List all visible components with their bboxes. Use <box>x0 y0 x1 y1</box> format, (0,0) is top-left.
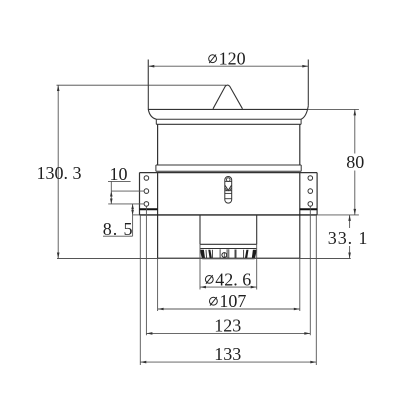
lower bead ring top line <box>156 164 301 166</box>
123 right arrow <box>304 332 310 335</box>
d107 right arrow <box>294 308 300 311</box>
motor bell right corner wedge <box>252 250 257 259</box>
dimension 33.1 <box>328 215 369 259</box>
d42.6 dim line <box>200 286 257 288</box>
motor bell left corner wedge <box>200 250 205 259</box>
123 ext left (from bottom hole) <box>145 207 147 336</box>
bottom extension line long <box>57 258 351 260</box>
dimension d120 <box>148 49 308 85</box>
d120 ext left <box>147 60 149 86</box>
wire slot chevron ticks <box>225 188 231 190</box>
8.5 dim vertical <box>132 204 134 236</box>
dimension d42.6 <box>200 244 257 289</box>
svg-text:8. 5: 8. 5 <box>103 219 134 239</box>
d42.6 ext right <box>256 244 258 289</box>
duct body left wall <box>157 124 159 165</box>
10 underline <box>108 180 131 182</box>
wire slot outline <box>225 177 232 204</box>
dimension 80 <box>308 109 364 214</box>
33.1 top arrow <box>348 215 351 221</box>
133 dim line <box>140 361 316 363</box>
motor slot verticals right <box>227 249 244 258</box>
motor vent slant left <box>208 250 212 259</box>
80 ext bottom (flange extended) <box>317 214 359 216</box>
8.5 flange leader <box>133 214 140 216</box>
d107 ext right <box>299 258 301 311</box>
motor vent slot outlines left <box>206 249 220 258</box>
inlet lip right fillet <box>301 106 308 119</box>
d42.6 left arrow <box>200 286 206 289</box>
123 ext right <box>309 207 311 336</box>
80 bottom arrow <box>354 209 357 215</box>
right ear hole 2 <box>308 189 313 194</box>
130.3 dim line <box>57 85 59 259</box>
svg-text:120: 120 <box>219 49 246 69</box>
motor screw circle <box>222 253 227 258</box>
133 left arrow <box>140 361 146 364</box>
10 leader middle hole <box>111 190 144 192</box>
wire slot line 3 <box>225 192 232 194</box>
d107 dim line <box>158 308 300 310</box>
d120 left arrow <box>148 65 154 68</box>
svg-text:130. 3: 130. 3 <box>37 163 82 183</box>
motor bell upper line <box>200 248 256 250</box>
motor bell bottom line <box>202 258 254 260</box>
dimension 10 <box>108 164 144 204</box>
svg-text:123: 123 <box>214 316 241 336</box>
d107 phi symbol <box>210 297 218 305</box>
right ear bottom heavy edge <box>300 208 317 210</box>
svg-text:107: 107 <box>219 291 246 311</box>
wire slot top circle <box>226 178 230 182</box>
10 down arrow <box>110 199 113 204</box>
33.1 dim line upper <box>349 215 351 228</box>
motor screw slot <box>223 253 225 257</box>
33.1 dim line lower <box>349 246 351 259</box>
left ear hole 3 <box>144 202 149 207</box>
motor right wall <box>256 215 258 244</box>
right ear inner edge / shroud right wall <box>299 173 301 259</box>
inlet lip left corner vertical <box>147 60 149 110</box>
right ear outer edge <box>316 173 318 215</box>
motor vent slant right <box>245 250 249 259</box>
d120 phi symbol <box>209 55 217 63</box>
right ear hole 3 <box>308 202 313 207</box>
dimension 123 <box>146 207 310 336</box>
fan housing top edge <box>140 172 318 174</box>
d42.6 ext left <box>199 244 201 289</box>
8.5 up arrow <box>131 204 134 209</box>
upper bead ring bottom line <box>156 123 301 125</box>
lower bead ring bottom line <box>156 170 301 172</box>
wire slot line 1 <box>225 180 232 182</box>
duct inlet top edge line (left, to spinner apex) <box>57 84 227 86</box>
d120 dim line <box>148 65 308 67</box>
wire slot line 4 <box>225 198 232 200</box>
svg-text:133: 133 <box>214 344 241 364</box>
80 top arrow <box>354 109 357 115</box>
8.5 down arrow <box>131 210 134 215</box>
dimension 133 <box>140 215 316 365</box>
motor left wall <box>199 215 201 244</box>
svg-text:80: 80 <box>346 152 364 172</box>
80 dim line upper <box>354 109 356 153</box>
motor bottom plate line <box>200 243 257 245</box>
d120 right arrow <box>302 65 308 68</box>
left ear hole 1 <box>144 176 149 181</box>
wire slot chevron <box>225 185 232 190</box>
80 dim line lower <box>354 171 356 215</box>
lower bead left side <box>155 165 157 171</box>
svg-text:42. 6: 42. 6 <box>215 269 251 289</box>
123 dim line <box>146 332 310 334</box>
duct body right wall <box>299 124 301 165</box>
inlet lip right corner vertical <box>307 60 309 106</box>
upper bead ring top line <box>156 118 301 120</box>
33.1 bottom arrow <box>348 253 351 259</box>
upper bead left side <box>155 119 157 124</box>
wire slot line 2 <box>225 190 232 192</box>
spinner cone <box>213 85 243 109</box>
10 dim vertical <box>110 181 112 204</box>
left ear outer edge <box>139 173 141 215</box>
123 left arrow <box>146 332 152 335</box>
8.5 underline <box>103 235 133 237</box>
left ear hole 2 <box>144 189 149 194</box>
upper bead right side <box>300 119 302 124</box>
130.3 bottom arrow <box>57 253 60 259</box>
10 up arrow <box>110 191 113 196</box>
dimension 8.5 <box>103 204 140 239</box>
dimension 130.3 <box>37 85 82 259</box>
133 ext right <box>315 215 317 365</box>
d42.6 right arrow <box>251 286 257 289</box>
svg-text:33. 1: 33. 1 <box>328 228 369 248</box>
130.3 top arrow <box>57 85 60 91</box>
d42.6 phi symbol <box>205 276 213 284</box>
inlet lip left fillet <box>148 109 156 119</box>
lower bead right side <box>300 165 302 171</box>
right ear hole 1 <box>308 176 313 181</box>
133 right arrow <box>310 361 316 364</box>
shroud bottom edge <box>158 257 300 259</box>
left ear bottom heavy edge <box>140 208 158 210</box>
inlet lip bottom line <box>148 108 308 110</box>
mounting flange bottom edge <box>140 214 318 216</box>
left ear inner edge / shroud left wall <box>157 173 159 259</box>
d107 ext left (wall extended) <box>157 258 159 311</box>
d107 left arrow <box>158 308 164 311</box>
80 ext top (lip line extended) <box>308 108 359 110</box>
dimension d107 <box>158 258 300 311</box>
10 leader bottom hole <box>108 203 144 205</box>
133 ext left (from flange corner) <box>139 215 141 365</box>
